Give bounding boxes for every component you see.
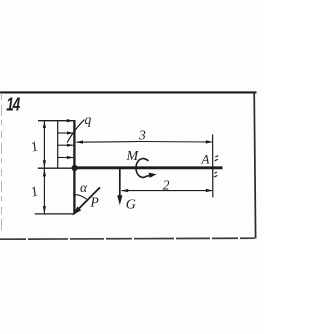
dimension line 3 (top span) bbox=[76, 140, 213, 144]
distributed load q: top line with arrow bbox=[38, 119, 75, 122]
svg-text:P: P bbox=[90, 195, 99, 210]
left dimension arrowhead down (bottom) bbox=[43, 206, 46, 213]
label alpha bbox=[80, 180, 88, 195]
label 1 (lower segment) bbox=[29, 183, 40, 199]
svg-text:q: q bbox=[85, 112, 92, 127]
label 3 bbox=[138, 127, 146, 142]
left dimension arrowhead up (top) bbox=[43, 121, 46, 128]
label G bbox=[126, 198, 136, 213]
label M bbox=[126, 149, 140, 164]
force P (arrow down-left at angle) bbox=[72, 187, 100, 215]
angle alpha arc bbox=[73, 195, 86, 200]
hatch tick above beam at A bbox=[215, 156, 219, 161]
leader line to label q bbox=[67, 120, 84, 143]
label 2 bbox=[163, 178, 170, 193]
svg-text:2: 2 bbox=[163, 178, 170, 193]
middle extension line at beam level bbox=[38, 167, 74, 169]
svg-text:3: 3 bbox=[138, 127, 146, 142]
svg-text:1: 1 bbox=[29, 138, 40, 154]
frame bottom border bbox=[0, 238, 255, 239]
svg-text:A: A bbox=[201, 152, 210, 167]
left dimension arrowhead up (below middle) bbox=[43, 169, 46, 176]
distributed load q: arrow 3 bbox=[58, 144, 74, 147]
svg-text:α: α bbox=[80, 180, 88, 195]
dimension line 2 (lower span) bbox=[121, 189, 213, 193]
column (vertical bar of bracket) bbox=[73, 121, 75, 214]
label 14 (problem number) bbox=[6, 95, 20, 115]
distributed load q: arrow 2 bbox=[58, 131, 74, 134]
force G (vertical arrow down) bbox=[117, 169, 122, 205]
hatch tick below beam at A bbox=[214, 172, 217, 177]
distributed load q: left edge line bbox=[57, 121, 59, 168]
frame top border bbox=[0, 91, 257, 93]
label q bbox=[85, 112, 92, 127]
svg-text:M: M bbox=[126, 149, 140, 164]
junction node (beam-column joint) bbox=[72, 165, 78, 171]
distributed load q: arrow 4 bbox=[58, 156, 74, 159]
svg-text:G: G bbox=[126, 198, 136, 213]
label P bbox=[90, 195, 99, 210]
svg-text:14: 14 bbox=[6, 95, 20, 115]
left dimension arrowhead down (above middle) bbox=[43, 160, 46, 167]
moment M arc with arrowhead bbox=[136, 159, 157, 178]
label 1 (upper segment) bbox=[29, 138, 40, 154]
left dimension line (two segments of 1) bbox=[43, 121, 45, 214]
svg-text:1: 1 bbox=[29, 183, 40, 199]
bottom extension line at column foot bbox=[35, 213, 75, 215]
frame left dotted border bbox=[1, 93, 3, 231]
extension line at A bbox=[212, 134, 214, 197]
label A bbox=[201, 152, 210, 167]
beam (horizontal bar to A) bbox=[73, 166, 223, 169]
frame right border bbox=[254, 92, 255, 239]
